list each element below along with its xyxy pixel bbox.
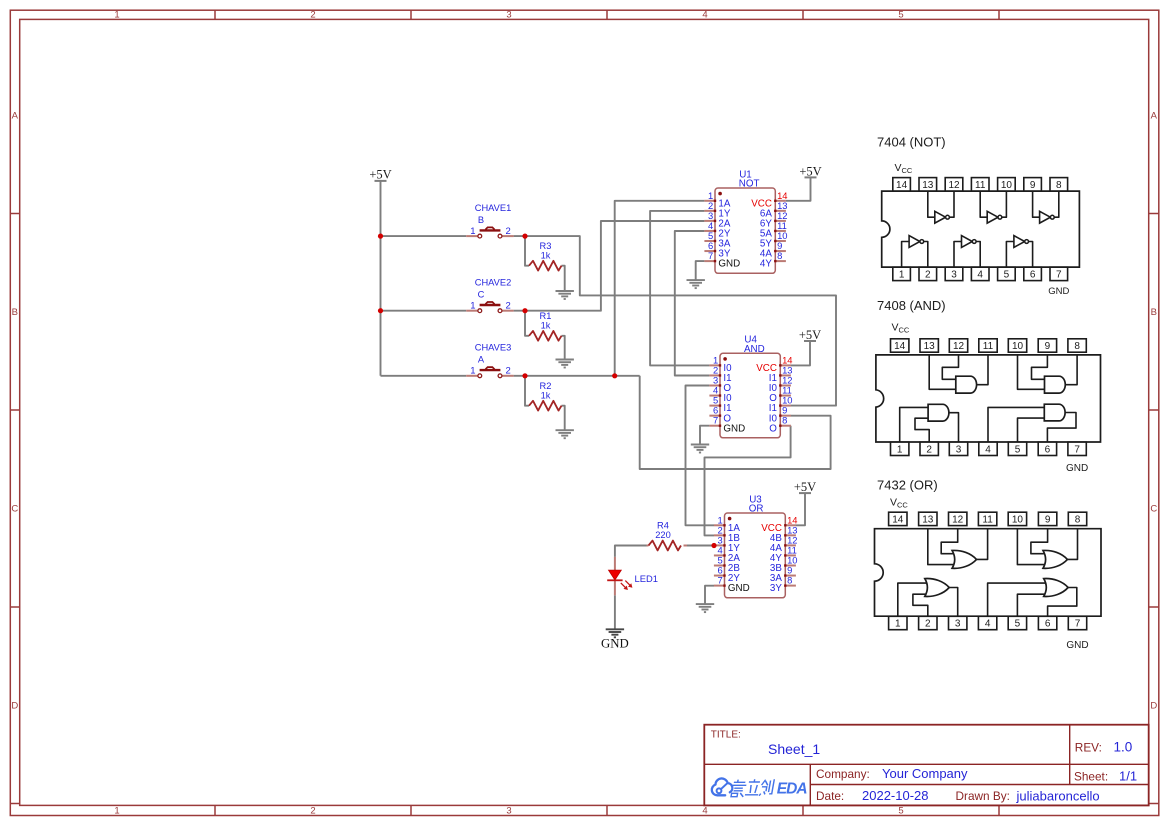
wire R4 to LED1 xyxy=(615,546,647,557)
svg-text:3Y: 3Y xyxy=(770,583,782,594)
svg-text:LED1: LED1 xyxy=(635,573,658,584)
wire CHAVE3 junction to R2 xyxy=(525,376,529,406)
svg-text:7: 7 xyxy=(717,575,722,586)
U3 pin 9 (3A) xyxy=(770,565,796,585)
svg-text:7: 7 xyxy=(1056,270,1062,281)
U3 pin 13 (4B) xyxy=(770,524,798,544)
svg-text:1k: 1k xyxy=(541,321,551,331)
7404 inverter gate pins 9-8 xyxy=(1033,191,1059,223)
7404 Vcc label xyxy=(895,162,913,175)
7408 pin box 5 xyxy=(1008,442,1026,455)
7432 pin box 14 xyxy=(889,512,907,525)
svg-text:REV:: REV: xyxy=(1075,741,1102,755)
7432 pin box 13 xyxy=(919,512,937,525)
svg-text:D: D xyxy=(1150,701,1157,712)
svg-text:5: 5 xyxy=(1015,619,1021,630)
U4 pin 8 (O) xyxy=(769,415,791,435)
U3 pin 2 (1B) xyxy=(714,524,740,544)
7404 inverter gate pins 3-4 xyxy=(954,236,980,268)
switch CHAVE3 (A) xyxy=(466,343,513,378)
U3 pin 3 (1Y) xyxy=(714,534,740,554)
pinout diagram 7408 (AND) xyxy=(877,298,946,313)
svg-text:4: 4 xyxy=(702,10,707,21)
svg-text:A: A xyxy=(1151,111,1158,122)
svg-text:R1: R1 xyxy=(540,311,552,321)
svg-text:7: 7 xyxy=(713,415,718,426)
LED LED1 xyxy=(607,557,658,595)
svg-text:1: 1 xyxy=(114,806,119,817)
svg-text:14: 14 xyxy=(894,341,906,352)
7432 pin box 11 xyxy=(978,512,996,525)
svg-text:1: 1 xyxy=(897,445,903,456)
svg-text:+5V: +5V xyxy=(799,164,821,178)
svg-text:6: 6 xyxy=(1030,270,1036,281)
7404 pin box 13 xyxy=(919,178,937,191)
svg-text:B: B xyxy=(1151,307,1157,318)
svg-text:AND: AND xyxy=(744,344,765,355)
svg-text:EDA: EDA xyxy=(777,781,808,798)
junction U3 output/R4 xyxy=(711,543,716,548)
switch CHAVE1 (B) xyxy=(466,203,513,238)
svg-text:5: 5 xyxy=(1015,445,1021,456)
wire CHAVE3 pin2 to node A xyxy=(514,375,640,377)
7404 pin box 10 xyxy=(998,178,1016,191)
7432 pin box 7 xyxy=(1068,616,1086,629)
svg-text:NOT: NOT xyxy=(739,179,760,190)
7408 pin box 6 xyxy=(1038,442,1056,455)
U1 pin 10 (5Y) xyxy=(760,230,788,250)
svg-text:8: 8 xyxy=(787,575,792,586)
U1 pin 3 (2A) xyxy=(704,210,730,230)
svg-text:10: 10 xyxy=(1001,180,1013,191)
U4 pin 10 (I1) xyxy=(769,395,793,415)
7408 body xyxy=(876,355,1101,442)
svg-text:1: 1 xyxy=(114,10,119,21)
svg-text:Sheet_1: Sheet_1 xyxy=(768,741,820,757)
IC U3 (OR) body xyxy=(725,494,786,598)
U1 pin 6 (3Y) xyxy=(704,240,730,260)
wire U4 pin7 to ground xyxy=(700,426,709,445)
svg-text:D: D xyxy=(11,701,18,712)
svg-text:1: 1 xyxy=(895,619,901,630)
svg-text:14: 14 xyxy=(892,515,904,526)
ground at R2 xyxy=(556,430,574,438)
U3 pin 6 (2Y) xyxy=(714,565,740,585)
svg-text:4: 4 xyxy=(985,445,991,456)
wire CHAVE1 pin2 to junction and to U4 pin10 (net B) xyxy=(514,236,836,406)
switch CHAVE2 (C) xyxy=(466,278,513,313)
svg-text:3: 3 xyxy=(956,445,962,456)
resistor R4 220 xyxy=(647,545,688,547)
svg-text:2: 2 xyxy=(310,10,315,21)
U4 pin 1 (I0) xyxy=(709,354,732,374)
U1 pin 1 (1A) xyxy=(704,190,730,210)
7432 pin box 1 xyxy=(889,616,907,629)
svg-text:12: 12 xyxy=(948,180,960,191)
wire U1 pin4 (2Y) to U4 pin2 xyxy=(675,231,710,376)
junction node A to U1 xyxy=(612,373,617,378)
resistor R2 1k xyxy=(529,381,562,411)
7432 pin box 4 xyxy=(978,616,996,629)
U3 pin 5 (2B) xyxy=(714,555,740,575)
7408 pin box 7 xyxy=(1068,442,1086,455)
ground at R1 xyxy=(556,360,574,368)
svg-text:CHAVE3: CHAVE3 xyxy=(475,343,512,353)
svg-text:GND: GND xyxy=(1048,286,1069,297)
U1 pin 12 (6Y) xyxy=(760,210,788,230)
svg-text:5: 5 xyxy=(898,806,903,817)
svg-text:2: 2 xyxy=(310,806,315,817)
7408 pin box 3 xyxy=(949,442,967,455)
svg-text:7: 7 xyxy=(1074,445,1080,456)
U3 pin 14 (VCC) xyxy=(761,514,797,534)
7432 pin box 9 xyxy=(1038,512,1056,525)
junction rail/CHAVE1 xyxy=(378,234,383,239)
svg-text:R4: R4 xyxy=(657,521,669,531)
svg-text:V: V xyxy=(890,497,897,509)
7432 body xyxy=(875,529,1102,617)
svg-text:+5V: +5V xyxy=(794,480,816,494)
power flag +5V at U4 xyxy=(791,328,822,366)
U4 pin 7 (GND) xyxy=(709,415,745,435)
svg-text:CHAVE1: CHAVE1 xyxy=(475,203,512,213)
7404 pin box 1 xyxy=(893,267,911,280)
svg-text:12: 12 xyxy=(953,341,965,352)
U3 pin 1 (1A) xyxy=(714,514,740,534)
svg-text:4Y: 4Y xyxy=(760,259,772,270)
7404 pin box 9 xyxy=(1024,178,1042,191)
svg-text:C: C xyxy=(478,290,485,300)
svg-text:5: 5 xyxy=(1004,270,1010,281)
wire rail to CHAVE1 pin1 xyxy=(381,235,467,237)
svg-text:2: 2 xyxy=(925,619,931,630)
svg-text:9: 9 xyxy=(1045,341,1051,352)
7432 pin box 2 xyxy=(919,616,937,629)
svg-text:10: 10 xyxy=(1012,341,1024,352)
7408 pin box 14 xyxy=(891,339,909,352)
svg-text:11: 11 xyxy=(982,515,993,526)
wire node A to U1 pin1 xyxy=(615,201,705,376)
svg-text:1k: 1k xyxy=(541,250,551,260)
wire U1 pin7 to ground xyxy=(696,261,705,280)
U4 pin 14 (VCC) xyxy=(756,354,792,374)
7408 Vcc label xyxy=(892,322,910,335)
wire CHAVE2 pin2 to U1 pin3 (net C) xyxy=(514,221,705,311)
7408 pin box 1 xyxy=(891,442,909,455)
svg-text:8: 8 xyxy=(1074,341,1080,352)
resistor R3 1k xyxy=(529,241,562,271)
7404 inverter gate pins 11-10 xyxy=(980,191,1006,223)
U4 pin 13 (I1) xyxy=(769,364,793,384)
7432 pin box 6 xyxy=(1038,616,1056,629)
7404 pin box 11 xyxy=(971,178,989,191)
wire R1 to ground xyxy=(562,336,565,360)
pinout diagram 7404 (NOT) xyxy=(877,135,946,150)
ground at U3 pin7 xyxy=(696,604,714,612)
svg-text:TITLE:: TITLE: xyxy=(711,729,741,740)
svg-text:4: 4 xyxy=(985,619,991,630)
svg-text:8: 8 xyxy=(777,250,782,261)
ground GND at LED1 xyxy=(601,629,629,650)
7432 OR gate pins 13,12 -> 11 xyxy=(928,529,988,569)
svg-text:2: 2 xyxy=(925,270,931,281)
U4 pin 9 (I0) xyxy=(769,405,791,425)
svg-text:GND: GND xyxy=(718,259,740,270)
svg-text:6: 6 xyxy=(1045,445,1051,456)
U4 pin 11 (O) xyxy=(769,385,792,405)
7432 pin box 5 xyxy=(1008,616,1026,629)
U4 pin 2 (I1) xyxy=(709,364,731,384)
U3 pin 11 (4Y) xyxy=(770,544,797,564)
svg-text:R2: R2 xyxy=(540,381,552,391)
power flag +5V at U1 xyxy=(786,164,822,201)
svg-text:7404 (NOT): 7404 (NOT) xyxy=(877,135,946,150)
svg-text:1.0: 1.0 xyxy=(1114,739,1133,754)
U4 pin 5 (I1) xyxy=(709,395,731,415)
svg-text:7: 7 xyxy=(1075,619,1081,630)
svg-text:Drawn By:: Drawn By: xyxy=(956,789,1010,803)
svg-text:O: O xyxy=(769,423,777,434)
svg-text:11: 11 xyxy=(983,341,994,352)
svg-text:R3: R3 xyxy=(540,241,552,251)
7408 pin box 2 xyxy=(920,442,938,455)
svg-text:3: 3 xyxy=(506,806,511,817)
7408 pin box 11 xyxy=(979,339,997,352)
wire rail to CHAVE2 pin1 xyxy=(381,310,467,312)
ground at R3 xyxy=(556,291,574,299)
7404 pin box 8 xyxy=(1050,178,1068,191)
wire U4 pin3 (O) to U3 pin1 xyxy=(686,386,715,526)
U3 pin 8 (3Y) xyxy=(770,575,796,595)
7408 pin box 8 xyxy=(1068,339,1086,352)
svg-text:7432 (OR): 7432 (OR) xyxy=(877,478,938,493)
7404 pin box 4 xyxy=(971,267,989,280)
svg-text:GND: GND xyxy=(728,583,750,594)
wire +5V rail vertical xyxy=(380,181,382,376)
pinout diagram 7432 (OR) xyxy=(877,478,938,493)
junction CHAVE2/R1 net C xyxy=(522,308,527,313)
7404 pin box 6 xyxy=(1024,267,1042,280)
svg-text:OR: OR xyxy=(749,504,764,515)
7404 inverter gate pins 1-2 xyxy=(902,236,928,268)
7404 pin box 7 xyxy=(1050,267,1068,280)
IC U4 (AND) body xyxy=(720,335,780,438)
wire U4 pin8 (O) to U3 pin2 xyxy=(705,426,791,536)
wire CHAVE2 junction to R1 xyxy=(525,311,529,336)
svg-text:Your Company: Your Company xyxy=(882,766,968,781)
U3 pin 10 (3B) xyxy=(770,555,798,575)
7404 pin box 5 xyxy=(998,267,1016,280)
U3 pin 4 (2A) xyxy=(714,544,740,564)
U1 pin 13 (6A) xyxy=(760,200,788,220)
U1 pin 4 (2Y) xyxy=(704,220,730,240)
svg-text:3: 3 xyxy=(506,10,511,21)
7408 AND gate pins 4,5 -> 6 xyxy=(988,404,1076,442)
svg-text:2: 2 xyxy=(926,445,932,456)
7404 pin box 2 xyxy=(919,267,937,280)
svg-text:12: 12 xyxy=(952,515,964,526)
svg-text:CC: CC xyxy=(902,166,913,175)
svg-text:8: 8 xyxy=(1056,180,1062,191)
U1 pin 8 (4Y) xyxy=(760,250,786,270)
ground at U4 pin7 xyxy=(691,445,709,453)
svg-text:A: A xyxy=(478,355,485,365)
7408 pin box 13 xyxy=(920,339,938,352)
wire LED1 cathode to ground xyxy=(614,595,616,629)
U1 pin 5 (3A) xyxy=(704,230,730,250)
svg-text:10: 10 xyxy=(1012,515,1024,526)
svg-text:A: A xyxy=(12,111,19,122)
7404 pin box 12 xyxy=(945,178,963,191)
svg-text:+5V: +5V xyxy=(799,328,821,342)
svg-text:3: 3 xyxy=(951,270,957,281)
svg-text:GND: GND xyxy=(723,423,745,434)
svg-text:3: 3 xyxy=(955,619,961,630)
IC U1 (NOT) body xyxy=(715,169,775,273)
svg-text:CHAVE2: CHAVE2 xyxy=(475,278,512,288)
svg-text:CC: CC xyxy=(897,501,908,510)
power flag +5V at U3 xyxy=(794,480,816,525)
svg-text:B: B xyxy=(12,307,18,318)
svg-text:6: 6 xyxy=(1045,619,1051,630)
U1 pin 9 (4A) xyxy=(760,240,786,260)
svg-text:GND: GND xyxy=(1066,640,1088,651)
svg-text:V: V xyxy=(895,162,902,174)
7432 OR gate pins 4,5 -> 6 xyxy=(988,579,1077,617)
7408 pin box 12 xyxy=(949,339,967,352)
7404 inverter gate pins 5-6 xyxy=(1006,236,1032,268)
svg-text:220: 220 xyxy=(655,530,671,540)
svg-text:13: 13 xyxy=(924,341,936,352)
7408 pin box 4 xyxy=(979,442,997,455)
7408 pin box 9 xyxy=(1038,339,1056,352)
svg-text:GND: GND xyxy=(601,637,629,651)
U3 pin 7 (GND) xyxy=(714,575,750,595)
7432 pin box 8 xyxy=(1068,512,1086,525)
svg-text:C: C xyxy=(11,504,18,515)
U4 pin 6 (O) xyxy=(709,405,731,425)
U1 pin 2 (1Y) xyxy=(704,200,730,220)
U4 pin 12 (I0) xyxy=(769,375,793,395)
svg-text:Company:: Company: xyxy=(816,767,870,781)
svg-text:5: 5 xyxy=(898,10,903,21)
svg-text:Date:: Date: xyxy=(816,789,844,803)
svg-text:7: 7 xyxy=(708,250,713,261)
junction CHAVE3/R2 net A xyxy=(522,373,527,378)
7408 AND gate pins 13,12 -> 11 xyxy=(929,355,988,393)
7404 pin box 3 xyxy=(945,267,963,280)
svg-text:7408 (AND): 7408 (AND) xyxy=(877,298,946,313)
svg-text:Sheet:: Sheet: xyxy=(1074,770,1108,784)
svg-text:C: C xyxy=(1150,504,1157,515)
7408 AND gate pins 1,2 -> 3 xyxy=(900,404,959,442)
U1 pin 14 (VCC) xyxy=(751,190,787,210)
7404 pin box 14 xyxy=(893,178,911,191)
svg-text:13: 13 xyxy=(922,515,934,526)
svg-text:CC: CC xyxy=(899,326,910,335)
wire R2 to ground xyxy=(562,406,565,430)
svg-text:9: 9 xyxy=(1030,180,1036,191)
junction rail/CHAVE2 xyxy=(378,308,383,313)
svg-text:13: 13 xyxy=(922,180,934,191)
U4 pin 4 (I0) xyxy=(709,385,732,405)
wire rail to CHAVE3 pin1 xyxy=(381,375,467,377)
7432 pin box 10 xyxy=(1008,512,1026,525)
7432 pin box 3 xyxy=(949,616,967,629)
U1 pin 11 (5A) xyxy=(760,220,787,240)
wire node A down to U4 pin9 xyxy=(640,376,831,469)
svg-text:8: 8 xyxy=(782,415,787,426)
EDA logo (cloud + 嘉立创EDA) xyxy=(712,778,808,797)
7432 OR gate pins 1,2 -> 3 xyxy=(898,579,958,617)
svg-text:B: B xyxy=(478,215,484,225)
svg-text:2022-10-28: 2022-10-28 xyxy=(862,788,929,803)
svg-text:4: 4 xyxy=(702,806,707,817)
svg-text:GND: GND xyxy=(1066,463,1088,474)
power flag +5V (left rail) xyxy=(369,168,391,182)
7404 body xyxy=(882,191,1080,267)
svg-text:juliabaroncello: juliabaroncello xyxy=(1016,789,1100,804)
svg-text:8: 8 xyxy=(1075,515,1081,526)
wire U3 pin7 to ground xyxy=(705,586,714,604)
title block xyxy=(704,725,1148,806)
svg-text:1/1: 1/1 xyxy=(1119,768,1137,783)
junction CHAVE1/R3 net B xyxy=(522,234,527,239)
svg-text:14: 14 xyxy=(896,180,908,191)
7432 OR gate pins 10,9 -> 8 xyxy=(1017,529,1077,569)
7404 inverter gate pins 13-12 xyxy=(928,191,954,223)
wire U1 pin2 (1Y) to U4 pin1 xyxy=(650,211,709,366)
svg-text:9: 9 xyxy=(1045,515,1051,526)
7432 Vcc label xyxy=(890,497,908,510)
7432 pin box 12 xyxy=(949,512,967,525)
svg-text:V: V xyxy=(892,322,899,334)
resistor R1 1k xyxy=(529,311,562,341)
svg-text:1k: 1k xyxy=(541,390,551,400)
7408 AND gate pins 10,9 -> 8 xyxy=(1018,355,1078,393)
wire R3 to ground xyxy=(562,266,565,291)
wire CHAVE1 junction to R3 xyxy=(525,236,529,266)
U3 pin 12 (4A) xyxy=(770,534,798,554)
wire U3 pin3 to R4 xyxy=(687,545,714,547)
svg-text:4: 4 xyxy=(977,270,983,281)
svg-text:11: 11 xyxy=(975,180,986,191)
svg-text:+5V: +5V xyxy=(369,168,391,182)
U4 pin 3 (O) xyxy=(709,375,731,395)
U1 pin 7 (GND) xyxy=(704,250,740,270)
7408 pin box 10 xyxy=(1008,339,1026,352)
svg-text:1: 1 xyxy=(899,270,905,281)
ground at U1 pin7 xyxy=(687,280,705,288)
